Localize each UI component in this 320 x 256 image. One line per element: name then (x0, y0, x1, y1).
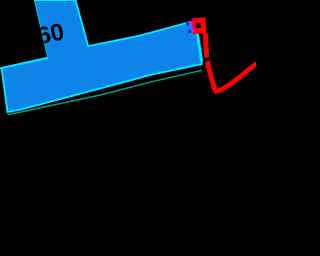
black wedge box occluding top-left (0, 0, 47, 68)
magenta joint marker 1 (190, 21, 193, 24)
blue joint marker 1 (186, 22, 189, 25)
faint teal under-line below bar (8, 70, 203, 114)
blue joint marker 2 (188, 30, 191, 33)
red rope rising chain (214, 63, 257, 91)
cyan right edge band of bar (196, 23, 202, 62)
red ring link (192, 17, 206, 34)
blue T-shaped plank body (2, 0, 202, 112)
cyan top edge of bar under wedge (0, 58, 48, 68)
ring hole (black) (196, 23, 201, 28)
red rope segment A (205, 33, 206, 58)
magenta joint marker 2 (192, 29, 195, 32)
dim teal stem-left edge along wedge (34, 0, 47, 57)
red rope lower chain (207, 61, 215, 90)
